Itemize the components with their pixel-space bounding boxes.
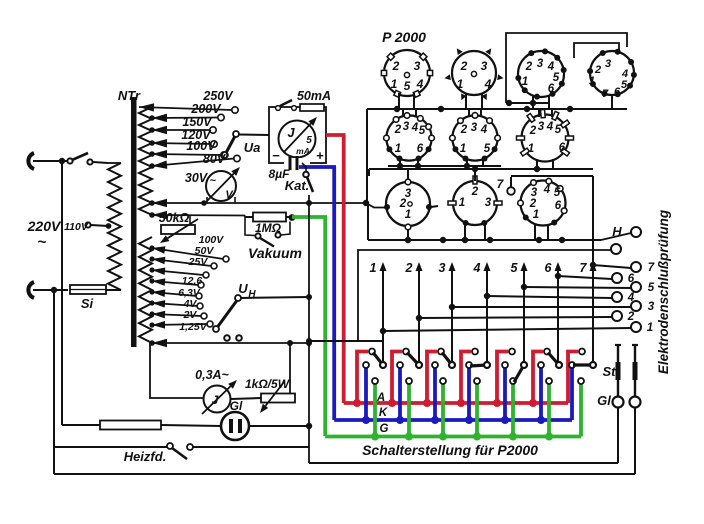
svg-text:1: 1 [528,143,534,155]
svg-text:3: 3 [538,121,545,133]
svg-text:7: 7 [602,88,609,100]
svg-text:G: G [380,423,389,435]
svg-text:4: 4 [480,124,488,136]
svg-text:+: + [316,148,324,163]
svg-text:2: 2 [529,125,537,137]
svg-text:6: 6 [614,86,621,98]
svg-text:3: 3 [439,261,446,275]
svg-text:4: 4 [484,77,492,91]
svg-text:~: ~ [38,234,47,251]
svg-text:5: 5 [648,282,655,294]
svg-text:2: 2 [525,61,533,73]
svg-text:4: 4 [543,184,551,196]
svg-text:1,25V: 1,25V [179,321,207,333]
svg-text:1: 1 [522,76,528,88]
svg-text:30V: 30V [185,171,209,185]
svg-text:Elektrodenschlußprüfung: Elektrodenschlußprüfung [656,209,671,374]
svg-text:2: 2 [471,186,479,198]
svg-text:6: 6 [548,83,555,95]
svg-text:Heizfd.: Heizfd. [124,449,167,464]
svg-text:12,6: 12,6 [182,275,203,287]
svg-text:mA: mA [296,146,310,156]
svg-text:1: 1 [370,261,377,275]
svg-text:1: 1 [405,209,411,221]
svg-text:6: 6 [545,261,553,275]
svg-text:110V: 110V [64,221,89,233]
svg-text:2: 2 [627,311,635,323]
svg-text:3: 3 [605,58,611,70]
svg-text:100V: 100V [186,139,217,153]
svg-text:220V: 220V [27,218,62,234]
svg-text:3: 3 [481,59,488,73]
svg-text:−: − [272,148,280,163]
svg-text:7: 7 [497,177,505,191]
svg-text:5: 5 [511,261,519,275]
svg-text:6: 6 [417,143,424,155]
svg-text:5: 5 [484,143,491,155]
svg-text:1: 1 [391,77,398,91]
svg-text:St: St [603,364,617,379]
svg-text:1: 1 [457,77,464,91]
svg-text:3: 3 [403,121,410,133]
svg-text:3: 3 [648,301,655,313]
svg-text:80V: 80V [203,152,227,166]
svg-text:Schalterstellung für P2000: Schalterstellung für P2000 [362,442,538,458]
svg-text:3: 3 [485,197,492,209]
svg-text:0,3A~: 0,3A~ [195,368,229,382]
svg-text:Ua: Ua [244,140,261,155]
svg-text:6: 6 [559,142,566,154]
svg-text:5: 5 [555,124,562,136]
svg-text:1: 1 [589,75,595,87]
svg-text:2: 2 [460,124,468,136]
svg-text:J: J [287,125,295,140]
svg-text:200V: 200V [190,102,222,116]
svg-text:3: 3 [471,122,478,134]
svg-text:150V: 150V [182,115,213,129]
svg-text:5: 5 [306,135,312,146]
svg-text:1: 1 [460,143,466,155]
svg-text:6: 6 [555,200,562,212]
svg-text:1kΩ/5W: 1kΩ/5W [245,377,291,391]
svg-text:H: H [612,224,622,239]
svg-text:7: 7 [648,262,655,274]
svg-text:2: 2 [392,59,400,73]
svg-text:NTr: NTr [118,88,141,103]
svg-text:2: 2 [405,261,413,275]
svg-text:5: 5 [419,125,426,137]
svg-text:U: U [238,281,248,296]
svg-text:3: 3 [537,58,544,70]
svg-text:Gl: Gl [597,393,611,408]
svg-text:P 2000: P 2000 [382,29,426,45]
svg-text:25V: 25V [188,256,209,268]
svg-text:Si: Si [81,296,94,311]
svg-text:50mA: 50mA [297,89,331,103]
svg-text:5: 5 [404,79,411,93]
svg-text:4: 4 [411,122,419,134]
svg-text:3: 3 [414,59,421,73]
svg-text:2V: 2V [183,309,198,321]
svg-text:4: 4 [627,292,635,304]
svg-text:Kat.: Kat. [285,178,310,193]
svg-text:K: K [379,407,388,419]
svg-text:4: 4 [473,261,481,275]
svg-text:5: 5 [621,79,628,91]
svg-text:2: 2 [460,59,468,73]
svg-text:6: 6 [628,273,635,285]
svg-text:4: 4 [546,121,554,133]
svg-text:250V: 250V [202,89,234,103]
svg-text:1: 1 [647,322,653,334]
svg-text:4: 4 [416,77,424,91]
svg-text:50kΩ: 50kΩ [159,211,190,225]
svg-text:5: 5 [554,187,561,199]
svg-text:~: ~ [210,175,217,187]
svg-text:Vakuum: Vakuum [248,245,302,261]
svg-text:1: 1 [395,143,401,155]
svg-text:1: 1 [459,197,465,209]
svg-text:7: 7 [580,261,588,275]
svg-text:1: 1 [533,209,539,221]
svg-text:2: 2 [394,124,402,136]
svg-text:A: A [376,392,385,404]
